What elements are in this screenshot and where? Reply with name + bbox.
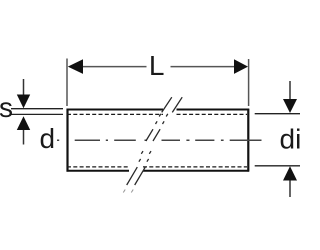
svg-text:d: d: [40, 123, 56, 154]
svg-text:s: s: [0, 92, 13, 123]
svg-text:di: di: [280, 123, 301, 154]
svg-text:L: L: [149, 50, 165, 81]
